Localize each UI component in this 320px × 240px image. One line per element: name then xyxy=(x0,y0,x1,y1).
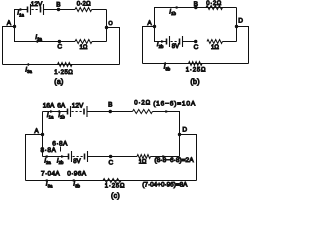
svg-text:(c): (c) xyxy=(111,193,120,200)
node C (b) xyxy=(194,40,197,43)
wire battery to C (b) xyxy=(183,41,196,43)
wire left frame (a) xyxy=(3,27,15,65)
svg-text:1·25Ω: 1·25Ω xyxy=(105,184,126,190)
svg-text:8·8A: 8·8A xyxy=(41,147,57,154)
wire top to right vertical (c) xyxy=(153,112,180,157)
svg-text:(8·8−6·8)=2A: (8·8−6·8)=2A xyxy=(154,157,194,164)
svg-text:7·04A: 7·04A xyxy=(41,171,60,178)
resistor 1.25&#937; (a) xyxy=(58,63,73,67)
wire B branch to corner (a) xyxy=(92,9,107,11)
node C (a) xyxy=(58,40,61,43)
svg-text:1·25Ω: 1·25Ω xyxy=(186,68,207,74)
wire top branch (c) xyxy=(43,111,68,113)
node D (c) xyxy=(178,133,181,136)
svg-text:B: B xyxy=(56,1,60,8)
wire D to right frame (c) xyxy=(180,135,197,181)
svg-text:16A: 16A xyxy=(43,102,55,109)
node B (c) xyxy=(109,110,112,113)
current arrow I1a 16A (c) xyxy=(45,111,50,113)
svg-text:O: O xyxy=(108,21,113,27)
svg-text:D: D xyxy=(182,127,187,134)
resistor 1.25&#937; (b) xyxy=(189,62,203,66)
wire middle to right vertical (a) xyxy=(92,41,107,43)
net current arrow top (c) xyxy=(158,111,166,113)
wire A to top branch (b) xyxy=(155,8,237,27)
node B (b) xyxy=(194,6,197,9)
node D (b) xyxy=(235,25,238,28)
svg-text:A: A xyxy=(147,20,152,27)
current arrow I3a (a) xyxy=(29,64,33,66)
wire O to right frame (a) xyxy=(107,28,120,65)
wire left frame (b) xyxy=(143,27,155,64)
svg-text:0·2Ω: 0·2Ω xyxy=(134,101,151,107)
resistor 0.2&#937; (b) xyxy=(206,6,223,10)
svg-text:8V: 8V xyxy=(73,159,80,165)
resistor 1&#937; (b) xyxy=(207,40,223,44)
svg-text:8V: 8V xyxy=(172,44,179,50)
current arrow I2b 6.8A (c) xyxy=(57,156,61,158)
svg-text:0·2Ω: 0·2Ω xyxy=(77,1,91,7)
node O (a) xyxy=(105,26,108,29)
svg-text:1·25Ω: 1·25Ω xyxy=(54,70,73,76)
battery 8V (b) xyxy=(166,39,168,45)
wire A to top branch (a) xyxy=(15,10,29,27)
svg-text:(16−6)=10A: (16−6)=10A xyxy=(153,101,196,108)
wire middle to right vertical (c) xyxy=(151,156,180,158)
battery 12V (c) xyxy=(67,109,69,115)
wire bottom branch (b) xyxy=(143,63,249,65)
wire right vertical top (a) xyxy=(106,10,108,42)
node B (a) xyxy=(57,8,60,11)
node A (b) xyxy=(153,25,156,28)
svg-text:12V: 12V xyxy=(72,103,84,110)
svg-text:A: A xyxy=(7,20,12,27)
resistor 1&#937; (c) xyxy=(137,155,151,159)
wire left frame (c) xyxy=(26,135,43,181)
resistor 1&#937; (a) xyxy=(75,40,92,44)
current arrow I3b 0.96A (c) xyxy=(75,180,81,182)
node A (c) xyxy=(41,133,44,136)
current arrow I3b (b) xyxy=(166,63,170,65)
wire battery to B (a) xyxy=(44,9,76,11)
wire bottom branch (c) xyxy=(26,180,197,182)
svg-text:12V: 12V xyxy=(31,1,43,8)
svg-text:C: C xyxy=(194,44,199,51)
svg-text:B: B xyxy=(194,1,198,8)
svg-text:1Ω: 1Ω xyxy=(211,45,219,51)
current arrow I2a (a) xyxy=(38,41,44,43)
svg-text:0·2Ω: 0·2Ω xyxy=(206,1,222,7)
wire middle branch (c) xyxy=(43,156,69,158)
wire A to middle branch (a) xyxy=(15,27,76,42)
svg-text:(b): (b) xyxy=(190,79,199,86)
current arrow I1b (b) xyxy=(177,7,180,9)
current arrow I2a 8.8A (c) xyxy=(48,156,52,158)
svg-text:0·96A: 0·96A xyxy=(67,171,86,178)
current arrow I1a (a) xyxy=(16,9,19,11)
svg-text:6·8A: 6·8A xyxy=(52,141,68,148)
wire middle to right vertical (b) xyxy=(223,41,237,43)
svg-text:1Ω: 1Ω xyxy=(80,45,88,51)
wire A to middle branch (b) xyxy=(155,27,167,42)
net current arrow middle (c) xyxy=(154,156,162,158)
svg-text:D: D xyxy=(238,18,243,25)
svg-text:(a): (a) xyxy=(54,79,63,86)
svg-text:1Ω: 1Ω xyxy=(139,160,147,166)
svg-text:A: A xyxy=(34,128,39,135)
wire bottom branch (a) xyxy=(3,64,120,66)
wire A vertical (c) xyxy=(42,112,44,157)
wire right vertical (b) xyxy=(236,8,238,42)
svg-text:(7·04+0·96)=8A: (7·04+0·96)=8A xyxy=(142,181,188,188)
resistor 0.2&#937; (a) xyxy=(75,8,92,12)
battery 12V (a) xyxy=(27,7,29,13)
node A (a) xyxy=(13,25,16,28)
wire battery to B (c) xyxy=(87,111,133,113)
svg-text:C: C xyxy=(109,160,114,167)
node C (c) xyxy=(109,155,112,158)
current arrow I1b 6A (c) xyxy=(60,111,64,113)
resistor 0.2&#937; (c) xyxy=(133,110,153,114)
resistor 1.25&#937; (c) xyxy=(103,179,121,183)
current arrow I3a 7.04A (c) xyxy=(48,180,54,182)
wire D to right frame (b) xyxy=(237,27,249,64)
svg-text:6A: 6A xyxy=(57,102,66,109)
current arrow I2b (b) xyxy=(157,41,161,43)
svg-text:C: C xyxy=(57,44,62,51)
battery 8V (c) xyxy=(68,154,70,160)
wire battery to C (c) xyxy=(88,156,138,158)
svg-text:B: B xyxy=(108,102,112,109)
